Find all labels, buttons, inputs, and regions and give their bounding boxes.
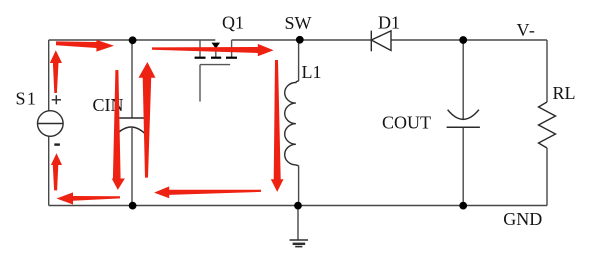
Q1 channel segments [195,57,237,59]
svg-text:D1: D1 [378,12,400,32]
current arrow: up past S1 plus terminal [50,50,62,93]
current arrow: up through CIN branch (right side) [139,62,156,178]
svg-text:S1: S1 [16,88,38,108]
S1 plus terminal mark [52,95,61,104]
diode D1 [371,31,391,52]
svg-text:GND: GND [503,209,542,229]
wire: top rail from S1 corner to Q1 [49,39,216,41]
svg-text:SW: SW [285,13,312,33]
svg-text:L1: L1 [302,62,322,82]
wire: RL bottom lead [546,148,548,206]
node: CIN top junction [129,36,137,44]
wire: right rail down to RL top [546,40,548,102]
wire: ground stem [297,206,299,241]
inductor L1 [285,81,299,166]
node: L1 / ground junction [294,202,302,210]
current arrow: down at L1 branch [271,60,284,192]
svg-text:Q1: Q1 [222,13,244,33]
current arrow: right through Q1 [152,44,274,56]
resistor RL [539,102,556,148]
voltage source S1 [38,111,64,137]
node: V- / COUT top junction [459,36,467,44]
svg-text:RL: RL [553,83,576,103]
wire: D1 anode to V- corner [391,39,547,41]
current arrow: left along bottom rail toward S1 [57,192,121,204]
wire: SW node to L1 top [298,40,300,81]
S1 minus terminal mark [54,143,60,145]
svg-text:V-: V- [517,20,536,40]
svg-text:COUT: COUT [382,113,431,133]
ground [290,240,309,247]
current arrow: up into S1 minus terminal [51,153,62,190]
wire: COUT bottom lead [462,128,464,206]
transistor Q1 [200,40,232,102]
capacitor COUT [447,110,480,128]
wire: Q1 drain to SW node to D1 cathode [232,39,372,41]
wire: left rail bottom (S1 minus lead) [48,136,50,205]
wire: L1 bottom lead [298,166,300,206]
capacitor CIN [116,118,147,135]
node: COUT bottom junction [459,202,467,210]
node: CIN bottom junction [129,202,137,210]
wire: CIN top lead [131,40,133,118]
current arrow: left along bottom rail toward CIN [154,186,261,198]
wire: COUT top lead [462,40,464,119]
node: SW junction [296,36,304,44]
wire: left rail top (S1 plus lead) [48,40,50,111]
current arrow: right along top-left rail [56,40,114,52]
wire: bottom rail [49,205,547,207]
Q1 body arrow [212,43,221,49]
wire: CIN bottom lead [131,128,133,206]
current arrow: down through CIN (left side) [112,70,125,190]
